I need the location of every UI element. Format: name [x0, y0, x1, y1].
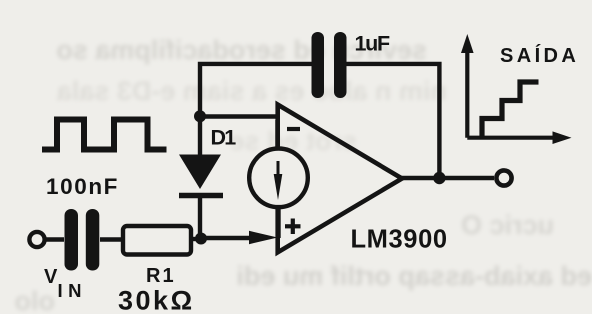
svg-text:olo: olo [15, 286, 56, 314]
node A (junction of feedback wire, minus input, D1) [194, 110, 206, 122]
plus input marker [285, 219, 301, 235]
wire: node A to op-amp minus input [200, 114, 277, 118]
current source symbol (Norton input) inside op-amp [249, 120, 308, 238]
diode D1 [179, 155, 223, 196]
staircase output waveform [482, 82, 539, 138]
wire: D1 cathode to node B [198, 196, 202, 239]
output graph horizontal axis with arrow [467, 131, 571, 144]
node B (junction of R1, D1 cathode, op-amp + input) [195, 233, 207, 245]
node C (output/feedback junction) [433, 172, 445, 184]
resistor R1 [123, 226, 191, 255]
svg-text:SAÍDA: SAÍDA [500, 44, 579, 67]
wire: R1 to node B [191, 237, 201, 241]
output graph vertical axis with arrow [461, 34, 474, 138]
capacitor 100nF (input coupling) [65, 209, 100, 271]
minus input marker [287, 127, 300, 131]
op-amp U1 triangle [278, 105, 402, 253]
svg-text:ed axiab-assap ortlif mu edi: ed axiab-assap ortlif mu edi [236, 261, 592, 291]
wire: op-amp output to output terminal [400, 176, 494, 180]
svg-text:V: V [44, 266, 58, 288]
wire: 1uF right plate to corner and down to node C [346, 64, 439, 173]
svg-text:D1: D1 [211, 125, 237, 149]
svg-text:LM3900: LM3900 [351, 226, 448, 254]
output terminal SAÍDA [496, 170, 511, 185]
svg-text:R1: R1 [146, 265, 176, 287]
svg-text:1uF: 1uF [355, 32, 390, 56]
wire: feedback left segment (node A up and right to 1uF) [200, 64, 312, 116]
svg-text:nim n albo es a siam e-D3 sala: nim n albo es a siam e-D3 sala [56, 76, 447, 106]
svg-text:ucric O: ucric O [461, 210, 554, 240]
svg-text:30kΩ: 30kΩ [118, 286, 195, 314]
wire: node A down to D1 anode [198, 116, 202, 156]
wire: input terminal to 100nF capacitor [45, 237, 64, 241]
input square-wave waveform symbol [42, 120, 167, 150]
capacitor C1 1uF (feedback) [312, 32, 347, 98]
wire: 100nF capacitor to resistor R1 [100, 237, 123, 241]
input terminal VIN [29, 232, 44, 247]
wire with arrowhead: node B to op-amp + input [201, 231, 278, 244]
svg-text:IN: IN [58, 280, 88, 301]
label VIN [44, 266, 87, 301]
svg-text:100nF: 100nF [46, 174, 119, 199]
